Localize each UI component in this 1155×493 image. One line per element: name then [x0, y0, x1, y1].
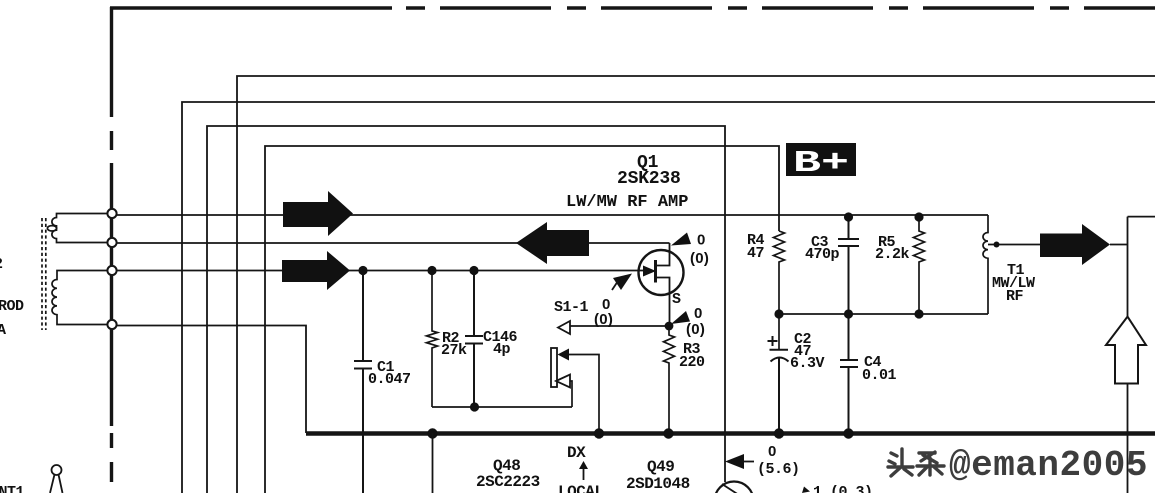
- dashed border left vertical: [110, 7, 113, 482]
- switch LOCAL contact open arrow: [556, 375, 570, 388]
- svg-text:27k: 27k: [441, 342, 467, 359]
- svg-text:S1-1: S1-1: [554, 299, 589, 316]
- svg-text:(0): (0): [686, 321, 705, 338]
- svg-text:1 (0.3): 1 (0.3): [813, 484, 873, 493]
- wire DX contact to ground: [569, 355, 599, 434]
- resistor R3: [664, 326, 675, 433]
- Q1 gate bar: [654, 260, 657, 283]
- signal arrow A2: [282, 251, 350, 290]
- junction ground bus R3: [663, 428, 673, 438]
- dashed border top: [110, 6, 392, 10]
- feedthrough terminal 3: [107, 266, 116, 275]
- svg-text:0: 0: [694, 305, 703, 322]
- ANT1 symbol: [52, 465, 62, 475]
- hollow up arrow: [1106, 317, 1146, 384]
- svg-text:A: A: [0, 322, 6, 339]
- feedthrough terminal 2: [107, 238, 116, 247]
- capacitor C4: [840, 314, 858, 433]
- svg-text:0: 0: [768, 443, 777, 460]
- junction C146 top: [469, 266, 478, 275]
- measurement arrow drain: [671, 233, 691, 246]
- svg-text:2SK238: 2SK238: [617, 169, 681, 189]
- svg-text:ROD: ROD: [0, 298, 24, 315]
- Q1 source lead: [657, 278, 670, 327]
- signal arrow A1: [283, 191, 353, 236]
- svg-text:4p: 4p: [493, 341, 511, 358]
- svg-text:Q49: Q49: [647, 458, 674, 476]
- antenna coil L2: [52, 271, 112, 325]
- Q49 circle: [715, 482, 754, 493]
- switch S1-1 pole bar: [551, 348, 557, 387]
- svg-text:220: 220: [679, 354, 705, 371]
- Q1 drain lead: [657, 243, 670, 266]
- capacitor C146: [465, 271, 483, 408]
- capacitor C2 plus sign: [768, 336, 778, 346]
- line below dot 432: [432, 433, 434, 493]
- measurement arrow gate: [613, 274, 632, 291]
- svg-text:2SD1048: 2SD1048: [626, 475, 690, 493]
- T1 tap dot: [994, 242, 1000, 248]
- ground bus bottom: [306, 431, 1155, 436]
- junction ground bus switch DX: [594, 428, 604, 438]
- watermark: [949, 445, 1148, 486]
- svg-text:@eman2005: @eman2005: [949, 445, 1148, 486]
- junction Q1 source node: [665, 322, 674, 331]
- frame line 4 (B+ feed): [265, 146, 779, 493]
- svg-text:2SC2223: 2SC2223: [476, 473, 540, 491]
- junction C146 bottom: [470, 402, 479, 411]
- measurement arrow bottom right: [802, 487, 810, 493]
- wire W4 coil2 bottom return: [112, 326, 306, 434]
- wire W3 gate wire: [112, 270, 643, 272]
- B+ label box: [786, 143, 856, 176]
- FET Q1 circle: [639, 250, 684, 295]
- antenna coil L1: [52, 214, 112, 243]
- wire LOCAL contact: [570, 381, 572, 407]
- svg-text:2.2k: 2.2k: [875, 246, 910, 263]
- signal arrow A4 (to next stage): [1040, 224, 1110, 265]
- resistor R2: [427, 271, 438, 408]
- svg-text:(0): (0): [690, 250, 709, 267]
- outer frame line 2: [182, 102, 1155, 493]
- svg-text:DX: DX: [567, 444, 586, 462]
- Q1 gate arrow: [643, 266, 656, 277]
- T1 tap wire: [988, 244, 1040, 246]
- frame line 3 (to Q49 collector): [207, 126, 725, 493]
- B+ rail mid: [779, 313, 988, 315]
- right stage box: [1110, 217, 1155, 493]
- svg-text:0: 0: [697, 232, 706, 249]
- feedthrough terminal 4: [107, 320, 116, 329]
- measurement arrow Q49 collector: [725, 454, 744, 469]
- signal arrow A3 (left): [516, 222, 589, 264]
- wire W2 drain wire: [112, 242, 670, 244]
- wire W1 antenna top rail: [112, 214, 988, 216]
- junction C4 mid rail: [844, 309, 853, 318]
- svg-text:47: 47: [747, 245, 764, 262]
- switch DX contact arrow: [558, 349, 570, 361]
- junction R5 top rail: [914, 212, 923, 221]
- svg-text:6.3V: 6.3V: [790, 355, 825, 372]
- ferrite rod: [42, 218, 46, 330]
- measurement arrow source: [671, 311, 690, 324]
- svg-text:LOCAL: LOCAL: [558, 483, 604, 493]
- wire R2/C146 bottom: [432, 406, 572, 408]
- svg-text:S: S: [672, 291, 681, 308]
- junction ground bus C4: [843, 428, 853, 438]
- junction R2 top: [427, 266, 436, 275]
- svg-text:0.01: 0.01: [862, 367, 897, 384]
- wire S1-1 to source: [570, 325, 668, 327]
- transformer T1 primary: [983, 215, 988, 314]
- resistor R4: [774, 231, 785, 350]
- svg-text:(5.6): (5.6): [757, 461, 800, 478]
- resistor R5: [914, 217, 925, 314]
- junction ground bus C2: [774, 428, 784, 438]
- switch common open arrow: [558, 321, 570, 334]
- watermark hanzi: [888, 449, 944, 476]
- DX up arrow: [583, 468, 585, 480]
- svg-text:ANT1: ANT1: [0, 484, 25, 493]
- svg-text:(0): (0): [594, 311, 613, 328]
- svg-text:B+: B+: [793, 146, 849, 181]
- capacitor C1: [354, 271, 372, 493]
- feedthrough terminal 1: [107, 209, 116, 218]
- junction C1 top: [358, 266, 367, 275]
- capacitor C2: [770, 350, 789, 433]
- junction C2 mid rail: [774, 309, 783, 318]
- Q49 internal lead: [722, 484, 742, 493]
- svg-text:0.047: 0.047: [368, 371, 411, 388]
- svg-text:RF: RF: [1006, 288, 1024, 305]
- junction R5 mid rail: [914, 309, 923, 318]
- svg-text:LW/MW RF AMP: LW/MW RF AMP: [566, 193, 688, 212]
- junction ground bus Q48: [427, 428, 437, 438]
- svg-text:470p: 470p: [805, 246, 840, 263]
- junction C3 top rail: [844, 212, 853, 221]
- outer frame line 1: [237, 76, 1155, 493]
- capacitor C3: [838, 217, 859, 314]
